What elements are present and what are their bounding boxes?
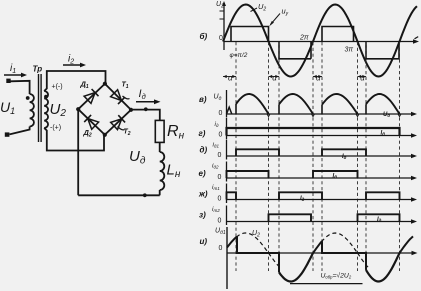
control pulse 1 negative: [279, 42, 311, 59]
svg-text:+(-): +(-): [52, 84, 63, 91]
panel e pulse 1: [227, 171, 269, 178]
thyristor T1 gate: [123, 96, 130, 99]
rectified hump 3: [321, 105, 323, 114]
panel zh pulse 1: [227, 192, 237, 199]
current Id arrow: [136, 101, 156, 103]
svg-text:α: α: [228, 74, 233, 83]
svg-text:з): з): [199, 211, 206, 220]
svg-text:д): д): [200, 146, 208, 155]
node bridge bottom: [103, 133, 107, 137]
panel i horizontal axis: [227, 252, 413, 254]
svg-text:0: 0: [218, 218, 222, 225]
primary polarity dot: [26, 96, 30, 100]
svg-text:г): г): [199, 129, 206, 138]
current i1 arrow: [4, 74, 24, 76]
svg-text:0: 0: [219, 245, 223, 252]
svg-text:в): в): [199, 95, 207, 104]
panel i vertical axis: [226, 227, 228, 289]
panel b axis ticks: [220, 11, 225, 19]
dashed phase line 8: [399, 42, 401, 271]
thyristor T1: [111, 90, 122, 101]
control pulse 2 positive: [322, 27, 354, 42]
panel b horizontal axis: [224, 41, 415, 43]
svg-text:0: 0: [218, 174, 222, 181]
svg-text:2π: 2π: [299, 35, 309, 42]
panel g id flat curve: [227, 128, 400, 136]
wire bridge edges: [78, 84, 131, 135]
secondary polarity dot: [44, 95, 48, 99]
diode D2: [88, 119, 99, 130]
wire inductor down: [159, 190, 161, 195]
resistor RH: [155, 120, 164, 142]
inductor LH: [160, 152, 165, 190]
svg-text:0: 0: [218, 152, 222, 159]
node Ud top probe: [144, 107, 148, 111]
svg-text:Тр: Тр: [33, 65, 43, 74]
panel e axes: [227, 177, 413, 179]
terminal top-left: [6, 79, 10, 83]
wire resistor to inductor: [159, 142, 161, 152]
svg-text:Iд: Iд: [300, 196, 305, 202]
panel i solid Ud1 curve: [227, 237, 237, 248]
panel z pulse 2: [358, 214, 400, 221]
panel z axes: [227, 221, 413, 223]
wire bottom rail: [78, 194, 160, 196]
svg-text:е): е): [199, 169, 206, 178]
dashed phase line 6: [357, 42, 359, 271]
rectified hump 2: [278, 104, 280, 114]
transformer secondary winding: [44, 91, 48, 128]
node bridge top: [103, 82, 107, 86]
current i2 arrow: [63, 64, 82, 66]
svg-text:3π: 3π: [345, 47, 354, 54]
panel b axis end tick: [415, 37, 419, 39]
svg-text:ж): ж): [198, 190, 208, 199]
panel d pulse 1: [236, 149, 279, 156]
svg-text:Uд: Uд: [383, 112, 390, 118]
control pulse 1 positive: [231, 27, 269, 42]
panel g axes: [227, 135, 413, 137]
wire right node to load: [131, 110, 160, 121]
svg-text:0: 0: [218, 196, 222, 203]
svg-text:φ=π/2: φ=π/2: [230, 52, 248, 59]
svg-text:-(+): -(+): [50, 125, 61, 132]
dashed phase line 2: [268, 42, 270, 271]
wire left node down: [77, 109, 79, 195]
thyristor T2 gate: [118, 127, 125, 130]
sine curve U2: [223, 5, 417, 77]
dashed phase line 7: [365, 42, 367, 271]
rectified hump 4: [365, 104, 367, 114]
wire primary top: [10, 81, 30, 94]
panel zh pulse 2: [279, 192, 322, 199]
node Ud bottom probe: [143, 193, 147, 197]
svg-text:0: 0: [219, 110, 223, 117]
dashed phase line 4: [312, 42, 314, 271]
svg-text:α: α: [360, 74, 365, 83]
terminal bottom-left: [5, 132, 10, 136]
panel v axes: [227, 113, 413, 115]
svg-text:Iд: Iд: [333, 173, 338, 179]
control pulse 2 negative: [366, 42, 399, 59]
panel z pulse 1: [269, 214, 312, 221]
panel b vertical axis: [223, 3, 225, 50]
svg-text:Iд: Iд: [342, 154, 347, 160]
node bridge right: [129, 108, 133, 112]
panel d axes: [227, 155, 413, 157]
dashed phase line 3: [278, 42, 280, 271]
panel zh pulse 3: [366, 192, 400, 199]
panel d pulse 2: [322, 149, 366, 156]
panel zh axes: [227, 199, 413, 201]
svg-text:и): и): [200, 237, 208, 246]
dashed phase line 5: [321, 42, 323, 271]
wire primary bottom: [10, 127, 30, 135]
svg-text:0: 0: [219, 132, 223, 139]
panel i Uobr reference line: [290, 283, 363, 285]
transformer core: [39, 74, 42, 142]
dashed phase line 1: [235, 42, 237, 271]
rectified hump 1: [235, 104, 237, 114]
thyristor T2: [111, 119, 122, 130]
panel e pulse 2: [313, 171, 358, 178]
node bridge left: [76, 107, 80, 111]
wire secondary top: [44, 71, 105, 91]
transformer primary winding: [30, 94, 34, 127]
wire secondary bottom: [44, 128, 104, 151]
svg-text:α: α: [272, 74, 277, 83]
panel i dashed U2 curve: [227, 233, 269, 253]
panel v initial spike: [227, 107, 232, 114]
svg-text:Uобр=√2U2: Uобр=√2U2: [321, 272, 352, 280]
svg-text:б): б): [200, 32, 208, 41]
diode D1: [84, 93, 95, 104]
svg-text:Iд: Iд: [381, 130, 386, 136]
svg-text:Iд: Iд: [377, 217, 382, 223]
